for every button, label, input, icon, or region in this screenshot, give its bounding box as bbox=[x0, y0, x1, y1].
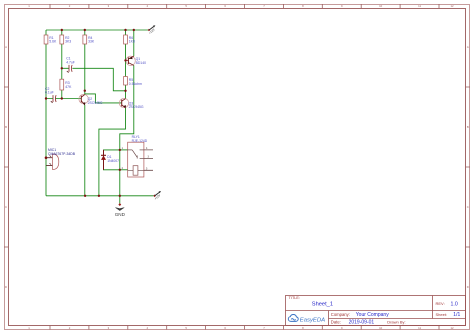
relay contact armature bbox=[132, 150, 137, 159]
wire D1 parallel links bbox=[104, 150, 120, 170]
svg-text:Sheet_1: Sheet_1 bbox=[312, 301, 333, 307]
relay contact NO bbox=[140, 158, 144, 160]
svg-text:3K3: 3K3 bbox=[65, 40, 71, 44]
title block outline bbox=[286, 296, 466, 326]
svg-text:Drawn By:: Drawn By: bbox=[387, 320, 405, 325]
relay RLY1 bbox=[122, 135, 153, 177]
svg-text:D: D bbox=[5, 285, 7, 289]
wire C2 link bbox=[46, 98, 62, 100]
wire GND stub bbox=[119, 196, 121, 204]
svg-text:33K: 33K bbox=[88, 40, 95, 44]
title block row divider 1 bbox=[286, 310, 466, 312]
svg-text:11: 11 bbox=[418, 4, 421, 8]
wire R2-R3 column bbox=[61, 30, 63, 99]
wire Q3 emitter to ground rail bbox=[99, 108, 126, 196]
wire relay pin1 stub bbox=[120, 149, 128, 151]
svg-text:2019-09-01: 2019-09-01 bbox=[349, 320, 375, 326]
svg-text:D: D bbox=[467, 285, 469, 289]
relay pin numbers bbox=[122, 147, 150, 170]
title block column divider logo bbox=[328, 311, 330, 326]
frame zone numbers bottom bbox=[28, 326, 454, 330]
capacitor C1 bbox=[66, 57, 75, 73]
ground symbol GND bbox=[115, 203, 126, 217]
svg-text:0.1uF: 0.1uF bbox=[45, 91, 54, 95]
wire Q1 emitter to rail bbox=[133, 30, 135, 56]
relay contact NC bbox=[140, 149, 144, 151]
frame zone ticks left bbox=[4, 87, 8, 247]
svg-text:A: A bbox=[467, 45, 469, 49]
resistor R1 bbox=[44, 35, 57, 44]
frame zone ticks bottom bbox=[50, 326, 439, 330]
wire left column R1/mic bbox=[45, 30, 47, 196]
frame zone ticks top bbox=[50, 4, 439, 8]
transistor Q1 BD140 bbox=[126, 56, 147, 65]
wire R6-R5 column with Q1 base tap bbox=[125, 30, 127, 99]
svg-text:REV:: REV: bbox=[436, 301, 445, 306]
resistor R6 bbox=[124, 35, 135, 44]
frame zone ticks right bbox=[466, 87, 471, 247]
wire Q2 collector to Q3 base bbox=[85, 94, 122, 103]
svg-text:TITLE:: TITLE: bbox=[289, 296, 300, 300]
svg-text:Your Company: Your Company bbox=[356, 312, 389, 318]
svg-text:2SC945G: 2SC945G bbox=[129, 105, 144, 109]
relay pin stubs right bbox=[144, 150, 153, 170]
relay coil bbox=[133, 166, 138, 176]
transistor Q3 2SC945G bbox=[119, 98, 144, 109]
svg-text:12: 12 bbox=[450, 326, 454, 330]
svg-text:BD140: BD140 bbox=[136, 61, 146, 65]
wire relay pin2 stub bbox=[120, 169, 128, 171]
junction dots bbox=[45, 29, 135, 197]
wire C1 coupling to R5/Q3 node bbox=[62, 68, 126, 91]
resistor R5 bbox=[124, 77, 143, 86]
svg-text:1K8: 1K8 bbox=[129, 40, 135, 44]
svg-text:C: C bbox=[467, 205, 469, 209]
svg-text:Company:: Company: bbox=[331, 312, 350, 317]
wire top +12V rail bbox=[46, 29, 148, 31]
wire R4-Q2 column bbox=[84, 30, 86, 95]
svg-text:5.6K: 5.6K bbox=[49, 40, 57, 44]
wire bottom ground rail bbox=[46, 195, 154, 197]
diode D1 1N4007 bbox=[101, 150, 119, 170]
microphone MIC1 bbox=[46, 148, 76, 170]
frame zone letters right bbox=[467, 45, 469, 289]
svg-text:2SC945G: 2SC945G bbox=[88, 101, 103, 105]
resistor R3 bbox=[60, 79, 72, 90]
svg-text:10: 10 bbox=[379, 4, 383, 8]
svg-text:1N4007: 1N4007 bbox=[107, 159, 119, 163]
relay contact common bbox=[128, 149, 133, 151]
capacitor C2 bbox=[45, 87, 56, 103]
svg-text:A: A bbox=[5, 45, 7, 49]
wire Q1 collector to relay bbox=[120, 65, 134, 195]
frame zone letters left bbox=[5, 45, 7, 289]
svg-text:12: 12 bbox=[450, 4, 454, 8]
svg-text:RJE-124D: RJE-124D bbox=[132, 139, 148, 143]
svg-text:1.0: 1.0 bbox=[451, 301, 458, 307]
svg-text:0.56ohm: 0.56ohm bbox=[129, 82, 142, 86]
svg-text:CMA6767P-34DB: CMA6767P-34DB bbox=[48, 152, 76, 156]
svg-text:B: B bbox=[5, 125, 7, 129]
resistor R4 bbox=[83, 35, 95, 44]
svg-text:+12V: +12V bbox=[153, 193, 161, 201]
transistor Q2 2SC945G bbox=[79, 94, 103, 196]
title block column divider rev bbox=[432, 296, 434, 319]
svg-text:+12V: +12V bbox=[148, 27, 156, 35]
wire Q2 base bbox=[62, 98, 82, 100]
svg-text:EasyEDA: EasyEDA bbox=[300, 317, 325, 323]
resistor R2 bbox=[60, 35, 71, 44]
net flag +12V top bbox=[148, 25, 156, 35]
title block row divider 2 bbox=[329, 318, 466, 320]
svg-text:1/1: 1/1 bbox=[453, 312, 460, 318]
svg-text:11: 11 bbox=[418, 326, 421, 330]
svg-text:Date:: Date: bbox=[331, 320, 341, 325]
svg-text:C: C bbox=[5, 205, 7, 209]
svg-text:10: 10 bbox=[379, 326, 383, 330]
svg-text:4.7uF: 4.7uF bbox=[66, 60, 75, 64]
EasyEDA logo cloud bbox=[288, 315, 298, 322]
frame zone numbers top bbox=[28, 4, 454, 8]
svg-text:GND: GND bbox=[115, 212, 126, 217]
svg-text:B: B bbox=[467, 125, 469, 129]
svg-text:47K: 47K bbox=[65, 85, 72, 89]
svg-text:Sheet:: Sheet: bbox=[436, 312, 448, 317]
net flag +12V bottom bbox=[153, 191, 161, 201]
